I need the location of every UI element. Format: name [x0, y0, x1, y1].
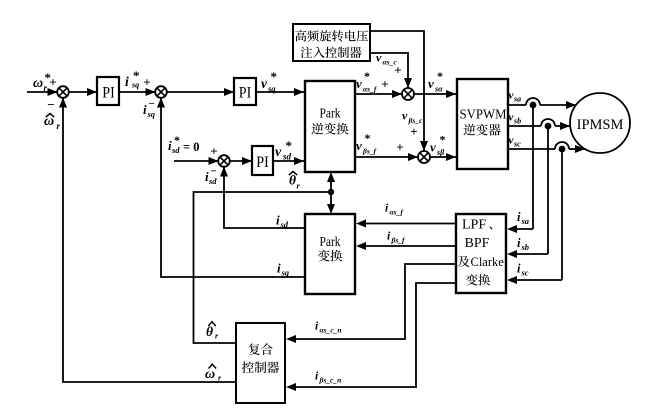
- svg-text:+: +: [396, 139, 403, 154]
- svg-text:PI: PI: [239, 85, 252, 102]
- svg-text:sβ: sβ: [436, 148, 445, 157]
- svg-text:v: v: [356, 76, 362, 91]
- svg-text:*: *: [286, 138, 293, 153]
- svg-text:= 0: = 0: [183, 140, 200, 154]
- svg-text:*: *: [364, 69, 370, 83]
- svg-text:Park: Park: [320, 234, 341, 249]
- svg-text:v: v: [509, 135, 514, 147]
- svg-text:−: −: [47, 97, 54, 112]
- svg-text:αs_c_n: αs_c_n: [320, 326, 342, 335]
- svg-text:IPMSM: IPMSM: [577, 117, 624, 133]
- svg-text:+: +: [49, 74, 56, 89]
- svg-text:sq: sq: [267, 84, 276, 94]
- svg-text:LPF: LPF: [462, 218, 486, 233]
- svg-text:sd: sd: [282, 152, 292, 162]
- svg-text:*: *: [174, 133, 180, 147]
- svg-text:i: i: [517, 262, 521, 276]
- svg-text:*: *: [133, 68, 140, 83]
- svg-text:SVPWM: SVPWM: [460, 108, 507, 123]
- svg-text:+: +: [410, 124, 417, 139]
- svg-text:i: i: [277, 261, 281, 276]
- svg-text:+: +: [143, 74, 150, 89]
- svg-text:*: *: [365, 131, 371, 145]
- svg-text:*: *: [440, 133, 446, 147]
- svg-text:+: +: [210, 143, 217, 158]
- svg-text:+: +: [381, 76, 388, 91]
- svg-text:Park: Park: [320, 106, 341, 121]
- svg-text:−: −: [149, 98, 155, 110]
- svg-text:αs_f: αs_f: [390, 208, 405, 217]
- svg-text:v: v: [428, 76, 434, 91]
- svg-text:sb: sb: [513, 117, 521, 126]
- svg-text:βs_c_n: βs_c_n: [319, 376, 342, 385]
- svg-text:v: v: [509, 90, 514, 102]
- svg-text:sa: sa: [521, 216, 530, 226]
- svg-text:r: r: [57, 121, 61, 131]
- svg-text:sd: sd: [208, 176, 217, 186]
- svg-text:sa: sa: [513, 95, 521, 104]
- svg-text:Clarke: Clarke: [471, 255, 505, 269]
- svg-text:BPF: BPF: [465, 236, 490, 251]
- svg-text:ω: ω: [33, 76, 43, 91]
- svg-text:βs_f: βs_f: [391, 236, 407, 245]
- svg-text:sb: sb: [521, 242, 530, 252]
- svg-text:i: i: [517, 236, 521, 250]
- svg-text:θ: θ: [206, 324, 213, 339]
- svg-text:sc: sc: [521, 268, 529, 278]
- svg-text:v: v: [402, 109, 408, 123]
- svg-text:αs_f: αs_f: [363, 85, 378, 94]
- svg-text:v: v: [509, 112, 514, 124]
- svg-text:−: −: [211, 166, 217, 178]
- svg-text:ω: ω: [205, 367, 215, 382]
- svg-text:v: v: [261, 76, 268, 91]
- svg-text:i: i: [125, 74, 129, 89]
- svg-text:sc: sc: [513, 140, 521, 149]
- svg-text:*: *: [437, 69, 443, 83]
- svg-text:i: i: [143, 102, 147, 117]
- svg-text:sq: sq: [281, 268, 290, 278]
- svg-text:v: v: [430, 140, 436, 155]
- svg-text:v: v: [376, 51, 382, 65]
- svg-text:βs_f: βs_f: [362, 147, 378, 156]
- svg-text:i: i: [517, 210, 521, 224]
- svg-text:i: i: [276, 213, 280, 228]
- svg-text:v: v: [356, 138, 362, 153]
- svg-text:sd: sd: [280, 220, 289, 230]
- svg-text:PI: PI: [102, 85, 115, 102]
- svg-text:PI: PI: [256, 154, 269, 171]
- svg-text:v: v: [275, 145, 282, 160]
- svg-text:*: *: [271, 69, 278, 84]
- svg-text:+: +: [394, 62, 401, 77]
- svg-text:sq: sq: [147, 109, 156, 119]
- svg-text:sα: sα: [434, 85, 443, 94]
